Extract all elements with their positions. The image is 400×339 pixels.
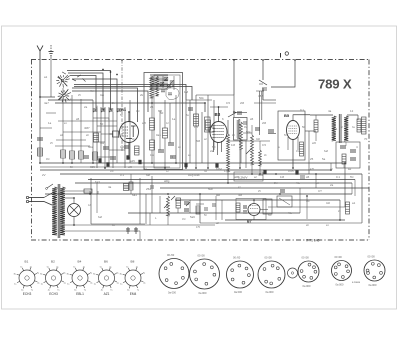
heater run [139,231,141,239]
svg-text:6a3: 6a3 [132,193,137,197]
tuning gang link dash-dot [121,60,123,151]
svg-text:a1: a1 [334,127,338,131]
mid resistors [194,114,199,126]
svg-text:B8: B8 [131,260,135,264]
gram terminal tick [280,53,282,58]
capacitor C3 [103,146,109,148]
svg-text:a05: a05 [312,142,317,145]
B1 cathode parts [124,145,129,147]
svg-text:0a 000: 0a 000 [336,283,344,287]
svg-text:ECH3: ECH3 [23,292,32,296]
tone components box [336,142,360,168]
svg-text:40a: 40a [296,182,301,185]
feedback box [277,196,292,207]
electrolytic pair [127,227,129,234]
coupling res near T2 [314,120,318,132]
aerial cap [37,137,43,139]
svg-text:5M: 5M [274,182,277,185]
det caps [237,111,242,113]
svg-text:00 /00: 00 /00 [167,253,175,257]
svg-text:a2: a2 [348,167,352,171]
socket B1 [19,270,35,286]
svg-text:00 /00: 00 /00 [198,254,206,258]
switch wipers [58,76,67,86]
svg-text:00 /00: 00 /00 [368,255,376,259]
svg-text:aRg: aRg [164,179,170,183]
left block inner wires [62,88,64,146]
svg-text:475: 475 [224,170,229,173]
svg-text:50: 50 [302,125,306,129]
earth terminal [50,45,52,51]
audio small res left [129,182,133,190]
gram switch [259,80,267,85]
svg-text:AZ1: AZ1 [104,292,110,296]
svg-text:50k: 50k [246,130,251,134]
svg-text:B6: B6 [104,260,108,264]
socket plate B [190,259,220,289]
svg-text:atd: atd [216,193,220,197]
svg-text:475: 475 [194,126,199,129]
socket B2 [46,270,62,286]
svg-text:50k: 50k [199,96,204,100]
gram terminal circle [285,52,288,55]
tube B1 [120,122,139,143]
svg-text:5M: 5M [268,214,271,217]
svg-text:4M: 4M [46,158,49,161]
osc trimmers [164,77,168,79]
svg-text:0a5: 0a5 [120,146,125,149]
socket E side circle [288,268,298,278]
svg-text:a5: a5 [76,117,80,121]
resistor R3 [94,133,99,142]
svg-text:0.1: 0.1 [300,108,304,112]
svg-text:B3: B3 [215,112,221,117]
antenna lead wire [39,57,41,97]
svg-text:70: 70 [364,137,368,141]
svg-text:0a 000: 0a 000 [266,290,274,294]
B3 anode load [227,134,230,172]
svg-text:a3: a3 [60,133,64,137]
socket plate G [364,260,385,281]
avc resistor [259,150,262,166]
svg-text:R 71 648: R 71 648 [306,239,320,243]
svg-text:2M: 2M [240,101,245,105]
socket plate D [258,261,285,288]
svg-text:4M: 4M [306,200,309,203]
svg-text:5M: 5M [212,146,215,149]
svg-text:Reg.Rad.: Reg.Rad. [188,173,200,177]
svg-text:5M: 5M [196,139,201,143]
svg-text:B4: B4 [78,260,82,264]
svg-text:40a: 40a [150,154,155,157]
svg-text:a5: a5 [250,117,254,121]
B3 screen resistor [205,117,211,132]
svg-text:1M: 1M [296,150,299,153]
svg-text:0.1: 0.1 [120,173,124,177]
right nested verticals [344,163,346,207]
svg-text:6a8: 6a8 [324,150,329,153]
B1 grid dashes [123,126,129,128]
svg-text:5a: 5a [144,167,148,171]
svg-text:4M: 4M [244,126,247,129]
svg-text:a1: a1 [44,75,48,79]
svg-text:0.5: 0.5 [262,143,266,147]
socket B8 [125,270,141,286]
front-end loop wires [67,71,111,111]
socket plate F [332,261,352,281]
B5 enclosure box [278,111,305,160]
coil former curve [166,88,179,100]
svg-text:12: 12 [350,109,354,113]
left mid component row [61,150,66,158]
svg-text:EM4: EM4 [130,292,137,296]
svg-text:1M: 1M [110,170,113,173]
svg-text:325: 325 [90,165,95,169]
socket plate E [298,261,319,282]
band switch S1 section a [64,80,67,83]
osc top extra marks [161,89,165,91]
svg-text:a05: a05 [166,214,171,217]
svg-text:1a: 1a [172,117,176,121]
svg-text:25: 25 [150,105,154,109]
capacitor C4 [110,156,116,158]
mains switch [44,193,52,198]
osc lower parts [150,118,155,130]
svg-text:50: 50 [100,122,104,126]
det top verticals [259,91,261,135]
tube B5 [287,121,300,140]
svg-text:1a: 1a [48,121,52,125]
bias label box [234,172,263,181]
svg-text:40a: 40a [288,212,293,215]
svg-text:475: 475 [310,168,315,171]
svg-text:2V: 2V [42,173,46,177]
svg-text:0a5: 0a5 [100,94,105,97]
svg-text:4a: 4a [328,109,332,113]
svg-text:25a: 25a [146,187,151,191]
bus component blobs [98,158,101,162]
fuse [84,189,92,193]
svg-text:0.5: 0.5 [226,101,230,105]
svg-text:B5: B5 [284,113,290,118]
audio cluster extra [159,196,161,213]
volume pot [251,135,254,165]
svg-text:2a: 2a [210,149,214,153]
svg-text:0a 000: 0a 000 [168,291,176,295]
mains plug [29,197,44,199]
svg-text:00 /00: 00 /00 [302,256,310,260]
B7 grid parts [236,203,240,212]
svg-text:6a8: 6a8 [98,216,103,219]
mid-bottom pot cluster [167,196,170,216]
B5 cathode res [300,142,304,156]
B5 box right link [305,130,316,132]
B5 inner pins [287,137,289,150]
gang cap trimmers [93,108,98,110]
svg-text:1M: 1M [280,175,285,179]
svg-text:488: 488 [258,94,263,98]
svg-text:2a: 2a [84,105,88,109]
socket plate A [159,259,189,289]
svg-text:a5: a5 [306,175,310,179]
svg-text:4M: 4M [238,193,243,197]
B7 box [236,199,266,220]
chassis dashed border [31,59,369,61]
output tube B7 [248,204,260,216]
osc can inner rect [154,75,180,168]
svg-text:50k: 50k [208,187,213,191]
grid cap B1 [113,131,119,137]
svg-text:789 X: 789 X [318,77,352,92]
long loop to osc [74,85,186,101]
svg-text:0a5: 0a5 [256,138,261,141]
B5 anode wire [293,114,310,116]
svg-text:1M: 1M [136,110,139,113]
right bottom res [346,202,350,214]
svg-text:2a: 2a [330,183,334,187]
power transformer T1 primary [52,187,57,235]
power transformer T1 secondary [60,187,65,235]
svg-text:CT: CT [318,189,322,193]
output transformer T2 primary [332,116,336,141]
dial lamp L [68,204,81,217]
svg-text:5a6: 5a6 [190,215,195,219]
IF2 can rect [234,118,248,141]
svg-text:a mana: a mana [352,281,361,284]
IF2 trimmer cap [243,121,247,123]
osc coil winding [150,76,154,98]
svg-text:a05: a05 [234,175,239,179]
det diode load [240,122,243,150]
switch contact marks [62,72,66,74]
antenna [39,51,41,57]
coil block links [93,117,109,119]
junction dots [39,162,41,164]
T2 top leads [310,114,333,116]
svg-text:4M: 4M [90,90,93,93]
svg-text:4a7: 4a7 [44,101,49,105]
socket B4 [72,270,88,286]
transformer taps [65,190,90,192]
svg-text:6a3: 6a3 [95,180,100,184]
svg-text:0a 000: 0a 000 [234,290,242,294]
svg-text:a1: a1 [352,201,356,205]
svg-text:1M: 1M [231,143,236,147]
svg-text:a25: a25 [130,159,135,163]
svg-text:2M: 2M [262,121,267,125]
svg-text:B2: B2 [51,260,55,264]
svg-text:5a: 5a [322,157,326,161]
middle vertical wires [185,100,187,168]
svg-text:50a: 50a [88,145,93,149]
main bus lines [40,162,345,164]
voltage selector [47,184,53,188]
svg-text:0.1: 0.1 [336,175,340,179]
svg-text:B7: B7 [247,220,252,224]
svg-text:B1: B1 [121,107,127,112]
svg-text:B1: B1 [25,260,29,264]
svg-text:25: 25 [310,157,314,161]
svg-text:4a: 4a [108,185,112,189]
socket plate C [227,261,254,288]
IF2 winding [237,119,240,139]
svg-text:0a 000: 0a 000 [369,283,377,287]
svg-text:EBL1: EBL1 [76,292,84,296]
svg-text:4M7: 4M7 [84,126,90,130]
wire gram right leg [271,60,295,87]
osc can outer rect [144,73,183,170]
socket B6 [99,270,115,286]
B7 right box [263,199,272,214]
IF2 top lead [233,112,247,114]
svg-text:6a8: 6a8 [146,174,151,177]
tube B3 [210,122,227,143]
svg-text:1M: 1M [182,218,185,221]
audio block rect [90,178,92,224]
wire gram down-left [262,60,264,80]
svg-text:00 /00: 00 /00 [233,256,241,260]
osc coil dense hatch [150,74,168,76]
svg-text:0a 000: 0a 000 [199,291,207,295]
resistor R4 [93,152,98,160]
svg-text:0a5: 0a5 [326,202,331,205]
earth lead wire [50,56,52,97]
svg-text:0.05: 0.05 [288,169,294,173]
svg-text:5M: 5M [350,176,353,179]
T2 core [338,114,340,143]
aerial series resistor [38,148,43,156]
svg-text:1M: 1M [184,90,189,94]
right resistor Rb [357,119,361,132]
T1 core [57,184,59,238]
svg-text:475: 475 [196,226,201,229]
B3 pins [213,141,215,152]
svg-text:ECH3: ECH3 [49,292,58,296]
svg-text:0a1: 0a1 [156,133,161,137]
svg-text:0a 000: 0a 000 [303,284,311,288]
output transformer T2 secondary [344,116,348,141]
coil block verticals [92,100,94,163]
svg-text:00 /00: 00 /00 [265,256,273,260]
svg-text:6a8: 6a8 [158,110,163,113]
svg-text:40a: 40a [100,142,105,145]
svg-text:a05: a05 [128,166,133,169]
svg-text:a05: a05 [142,122,147,125]
right resistor Ra [362,117,367,134]
svg-text:00 /00: 00 /00 [335,255,343,259]
